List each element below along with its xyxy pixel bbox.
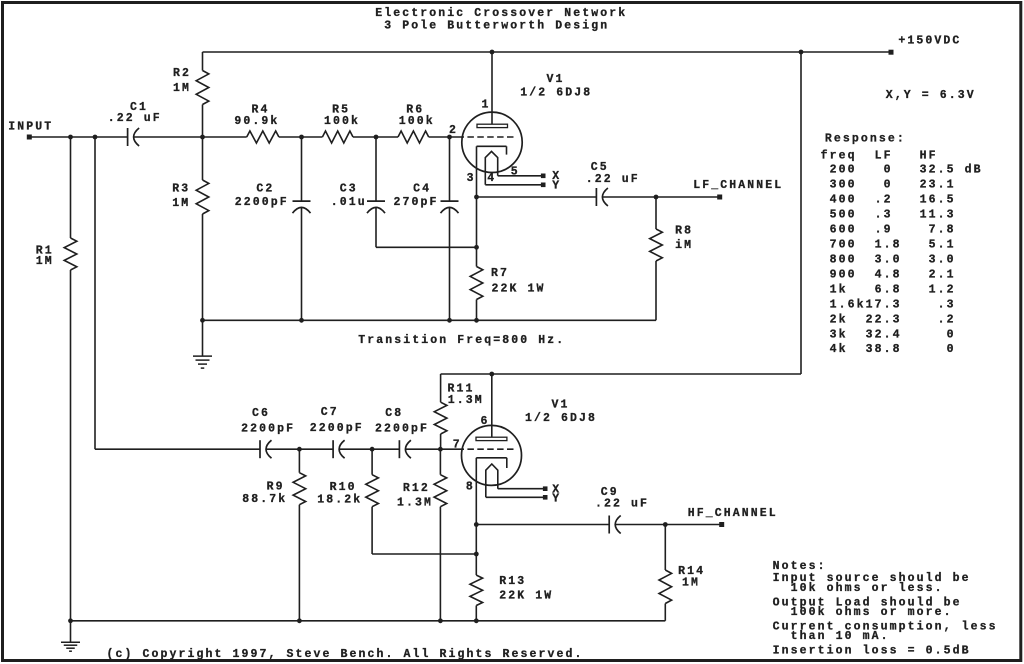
svg-text:C2: C2 <box>256 183 274 196</box>
svg-text:Notes:: Notes: <box>773 560 827 573</box>
node C2 junction <box>299 135 304 140</box>
resistor R11 <box>434 374 484 449</box>
wire R6 to grid <box>429 136 458 138</box>
svg-text:700 1.8 5.1: 700 1.8 5.1 <box>821 239 956 252</box>
svg-text:1M: 1M <box>682 577 700 590</box>
capacitor C6 <box>241 407 295 458</box>
svg-text:C5: C5 <box>591 161 609 174</box>
wire C6 to C7 <box>266 448 333 450</box>
svg-text:.22 uF: .22 uF <box>595 498 649 511</box>
svg-text:C3: C3 <box>340 183 358 196</box>
svg-text:4k 38.8 0: 4k 38.8 0 <box>821 343 956 356</box>
node HF_CHANNEL terminal <box>688 507 778 527</box>
svg-text:R2: R2 <box>173 67 191 80</box>
node R14 junction <box>663 522 668 527</box>
wire bottom rail of LF section <box>203 319 657 321</box>
ground at input bottom <box>70 621 72 642</box>
transistor Q1 (triode V1 lower envelope) <box>462 425 522 485</box>
wire C1 to R4 (main node) <box>134 136 247 138</box>
wire rail to R11 and lower plate <box>441 373 801 375</box>
op-amp U1 (triode V1 upper envelope) <box>462 112 522 172</box>
node INPUT terminal <box>8 121 53 140</box>
resistor R6 <box>398 104 435 143</box>
capacitor C2 <box>235 137 311 320</box>
wire C5 to LF_CHANNEL <box>603 196 720 198</box>
node R8 junction <box>654 195 659 200</box>
svg-text:8: 8 <box>466 481 475 494</box>
svg-text:100k ohms or more.: 100k ohms or more. <box>791 606 953 619</box>
svg-text:Insertion loss = 0.5dB: Insertion loss = 0.5dB <box>773 645 971 658</box>
svg-text:2200pF: 2200pF <box>241 423 295 436</box>
resistor R8 <box>650 197 693 320</box>
capacitor C7 <box>310 406 364 458</box>
notes text block <box>773 560 998 658</box>
svg-text:800 3.0 3.0: 800 3.0 3.0 <box>821 253 956 266</box>
svg-text:(c) Copyright 1997, Steve Benc: (c) Copyright 1997, Steve Bench. All Rig… <box>107 648 584 661</box>
node cathode output junction <box>474 195 479 200</box>
svg-text:+150VDC: +150VDC <box>898 34 961 47</box>
svg-text:500 .3 11.3: 500 .3 11.3 <box>821 209 956 222</box>
svg-text:1M: 1M <box>172 197 190 210</box>
resistor R9 <box>242 449 305 621</box>
svg-text:270pF: 270pF <box>394 196 439 209</box>
node junction dots on input wire <box>68 135 73 140</box>
svg-text:22K 1W: 22K 1W <box>499 589 553 602</box>
svg-text:1M: 1M <box>173 82 191 95</box>
svg-text:1k 6.8 1.2: 1k 6.8 1.2 <box>821 283 956 296</box>
capacitor C8 <box>375 407 429 458</box>
svg-text:R3: R3 <box>172 182 190 195</box>
wire R5 to R6 <box>353 136 398 138</box>
node right rail junction <box>799 50 804 55</box>
svg-text:C7: C7 <box>321 406 339 419</box>
svg-text:100k: 100k <box>324 115 360 128</box>
svg-text:C6: C6 <box>252 407 270 420</box>
wire lower heater to X <box>498 488 545 490</box>
svg-text:R8: R8 <box>675 225 693 238</box>
node lower cathode junction <box>474 522 479 527</box>
capacitor C4 <box>394 137 459 320</box>
wire branch to HF section <box>95 137 260 449</box>
svg-text:iM: iM <box>675 239 693 252</box>
cathode of V1 lower, pin 8 <box>466 458 507 575</box>
capacitor C1 <box>108 101 162 146</box>
svg-text:1.3M: 1.3M <box>397 497 433 510</box>
svg-text:2k 22.3 .2: 2k 22.3 .2 <box>821 313 956 326</box>
svg-text:Transition Freq=800 Hz.: Transition Freq=800 Hz. <box>358 334 565 347</box>
resistor R1 <box>36 137 77 621</box>
svg-text:R13: R13 <box>499 575 526 588</box>
node Y terminal upper <box>541 180 561 193</box>
wire C3 feedback to cathode <box>376 246 477 248</box>
node Y terminal lower <box>543 492 561 505</box>
wire input to C1 <box>29 136 127 138</box>
resistor R3 <box>172 137 209 320</box>
svg-text:V1: V1 <box>552 399 570 412</box>
capacitor C9 <box>595 486 649 533</box>
svg-text:freq LF HF: freq LF HF <box>821 150 938 163</box>
svg-text:100k: 100k <box>399 115 435 128</box>
resistor R12 <box>397 449 447 621</box>
node X terminal lower <box>543 483 561 496</box>
node lower plate junction <box>489 372 494 377</box>
svg-text:1: 1 <box>482 98 491 111</box>
svg-text:HF_CHANNEL: HF_CHANNEL <box>688 507 778 520</box>
node X terminal upper <box>541 170 561 183</box>
wire +150VDC top rail <box>203 51 892 53</box>
svg-text:Y: Y <box>552 492 561 505</box>
wire bottom rail of HF section <box>71 620 666 622</box>
svg-text:1/2 6DJ8: 1/2 6DJ8 <box>525 412 597 425</box>
svg-text:1.3M: 1.3M <box>448 394 484 407</box>
title text <box>375 7 627 33</box>
svg-text:V1: V1 <box>547 73 565 86</box>
svg-text:1M: 1M <box>36 255 54 268</box>
wire C8 to lower grid <box>406 448 458 450</box>
svg-text:3k 32.4 0: 3k 32.4 0 <box>821 328 956 341</box>
svg-text:3 Pole Butterworth Design: 3 Pole Butterworth Design <box>384 20 609 33</box>
plate of V1 upper with lead, pin 1 <box>477 52 508 128</box>
svg-text:6: 6 <box>481 415 490 428</box>
svg-text:R10: R10 <box>330 481 357 494</box>
wire heater pin4 to Y <box>485 184 543 186</box>
node +150VDC terminal <box>889 34 962 54</box>
wire C9 to HF_CHANNEL <box>616 524 722 526</box>
svg-text:2200pF: 2200pF <box>235 196 289 209</box>
resistor R14 <box>659 525 705 621</box>
svg-text:.01u: .01u <box>331 196 367 209</box>
svg-text:18.2k: 18.2k <box>317 494 362 507</box>
svg-text:than 10 mA.: than 10 mA. <box>791 630 890 643</box>
node R10 junction <box>370 447 375 452</box>
svg-text:600 .9 7.8: 600 .9 7.8 <box>821 224 956 237</box>
svg-text:4: 4 <box>487 172 496 185</box>
node C3 junction <box>374 135 379 140</box>
svg-text:2200pF: 2200pF <box>375 423 429 436</box>
svg-text:C4: C4 <box>413 183 431 196</box>
ground below R3 <box>202 320 204 356</box>
wire right rail +150 down <box>800 52 802 374</box>
resistor R10 <box>317 449 378 554</box>
svg-text:INPUT: INPUT <box>8 121 53 134</box>
svg-text:C8: C8 <box>385 407 403 420</box>
node plate junction top rail <box>490 50 495 55</box>
capacitor C5 <box>586 161 640 206</box>
svg-text:300 0 23.1: 300 0 23.1 <box>821 179 956 192</box>
svg-text:.22 uF: .22 uF <box>586 173 640 186</box>
heater of V1 upper, pins 4 and 5 <box>485 151 520 185</box>
node bottom rail junction dots <box>68 618 73 623</box>
svg-text:10k ohms or less.: 10k ohms or less. <box>791 582 944 595</box>
grid of V1 lower (dashed) <box>458 448 514 450</box>
svg-text:1/2 6DJ8: 1/2 6DJ8 <box>520 86 592 99</box>
svg-text:R9: R9 <box>267 480 285 493</box>
cathode of V1 upper, pin 3 <box>467 146 507 266</box>
svg-text:90.9k: 90.9k <box>234 115 279 128</box>
svg-text:88.7k: 88.7k <box>242 493 287 506</box>
svg-text:Y: Y <box>552 180 561 193</box>
svg-text:2: 2 <box>449 124 458 137</box>
resistor R13 <box>470 575 553 621</box>
wire R10 feedback to lower cathode <box>372 553 476 555</box>
svg-text:400 .2 16.5: 400 .2 16.5 <box>821 194 956 207</box>
response table <box>821 133 983 357</box>
grid of V1 upper (dashed) <box>458 136 514 138</box>
svg-text:R12: R12 <box>403 482 430 495</box>
V1 lower label <box>525 399 597 426</box>
svg-text:2200pF: 2200pF <box>310 422 364 435</box>
svg-text:900 4.8 2.1: 900 4.8 2.1 <box>821 268 956 281</box>
node R11 R12 junction <box>438 447 443 452</box>
resistor R4 <box>234 104 279 143</box>
wire lower heater to Y <box>486 496 545 498</box>
node lower feedback junction <box>474 552 479 557</box>
heater of V1 lower <box>486 464 498 497</box>
wire C7 to C8 <box>339 448 399 450</box>
resistor R5 <box>322 104 360 143</box>
V1 upper label <box>520 73 592 100</box>
svg-text:Electronic Crossover Network: Electronic Crossover Network <box>375 7 627 20</box>
node LF_CHANNEL terminal <box>693 179 783 199</box>
svg-text:3: 3 <box>467 172 476 185</box>
wire heater pin5 to X <box>498 175 544 177</box>
svg-text:.22 uF: .22 uF <box>108 112 162 125</box>
node C4 junction <box>447 135 452 140</box>
wire lower cathode output to C9 <box>476 524 609 526</box>
node R9 junction <box>297 447 302 452</box>
wire cathode output to C5 <box>477 196 597 198</box>
resistor R2 <box>173 52 209 137</box>
wire R4 to R5 <box>279 136 323 138</box>
svg-text:Response:: Response: <box>825 133 906 146</box>
capacitor C3 <box>331 137 385 247</box>
plate of V1 lower with lead, pin 6 <box>476 374 507 441</box>
svg-text:LF_CHANNEL: LF_CHANNEL <box>693 179 783 192</box>
svg-text:X,Y = 6.3V: X,Y = 6.3V <box>886 89 976 102</box>
svg-text:1.6k17.3 .3: 1.6k17.3 .3 <box>821 298 956 311</box>
node rail junction dots <box>200 318 205 323</box>
resistor R7 <box>470 267 545 321</box>
svg-text:200 0 32.5 dB: 200 0 32.5 dB <box>821 164 983 177</box>
svg-text:R7: R7 <box>491 267 509 280</box>
node feedback junction <box>474 245 479 250</box>
svg-text:22K 1W: 22K 1W <box>492 282 546 295</box>
